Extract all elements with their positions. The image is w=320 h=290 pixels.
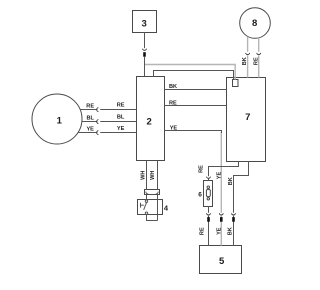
svg-text:RE: RE [253, 57, 259, 65]
svg-text:YE: YE [117, 126, 125, 132]
svg-text:7: 7 [245, 112, 250, 123]
svg-text:YE: YE [216, 172, 222, 180]
svg-text:RE: RE [199, 165, 205, 173]
svg-text:YE: YE [216, 227, 222, 235]
svg-text:2: 2 [147, 117, 152, 128]
svg-text:1: 1 [57, 116, 63, 127]
svg-text:BK: BK [228, 177, 234, 185]
svg-text:YE: YE [86, 126, 94, 132]
svg-text:RE: RE [169, 100, 177, 106]
svg-text:YE: YE [170, 125, 178, 131]
svg-text:RE: RE [117, 103, 125, 109]
svg-text:BK: BK [242, 57, 248, 65]
svg-text:6: 6 [198, 192, 202, 199]
svg-text:3: 3 [142, 18, 147, 29]
svg-text:RE: RE [200, 227, 206, 235]
svg-text:RE: RE [86, 103, 94, 109]
svg-text:WH: WH [150, 171, 156, 180]
svg-text:5: 5 [219, 256, 225, 267]
svg-text:BK: BK [228, 227, 234, 235]
svg-text:BL: BL [117, 115, 125, 121]
svg-text:BK: BK [169, 84, 177, 90]
svg-text:8: 8 [252, 18, 257, 29]
svg-text:BL: BL [86, 115, 94, 121]
svg-text:WH: WH [140, 171, 146, 180]
